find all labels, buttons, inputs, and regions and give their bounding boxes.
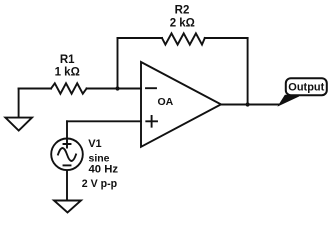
wire feedback top rail left: [118, 37, 163, 39]
ground left: [5, 118, 32, 131]
wire output rail: [221, 104, 279, 106]
svg-text:2 kΩ: 2 kΩ: [170, 17, 195, 29]
svg-text:V1: V1: [88, 138, 101, 150]
svg-text:R2: R2: [175, 5, 190, 17]
wire left ground riser: [18, 89, 20, 117]
wire V1 top riser: [66, 121, 68, 138]
node junction R1/R2: [115, 86, 119, 90]
op-amp plus input marker: [146, 116, 157, 127]
wire feedback right vertical: [247, 38, 249, 105]
ground bottom: [54, 201, 81, 213]
svg-text:40 Hz: 40 Hz: [89, 163, 119, 175]
svg-text:1 kΩ: 1 kΩ: [55, 67, 80, 79]
wire V1 bottom riser: [66, 171, 68, 200]
wire feedback left vertical: [117, 38, 119, 89]
node junction output: [246, 102, 250, 106]
wire feedback top rail right: [205, 37, 248, 39]
output flag tail: [279, 95, 299, 105]
source V1 sine wave: [58, 148, 76, 161]
resistor R2: [162, 33, 205, 44]
output flag box: [286, 78, 327, 95]
source V1 plus marker: [64, 141, 71, 148]
op-amp minus input marker: [146, 87, 156, 89]
source V1 circle: [51, 139, 83, 171]
source V1 minus marker: [64, 164, 71, 166]
wire input rail left segment: [19, 88, 51, 90]
wire plus input rail: [67, 120, 141, 122]
resistor R1: [51, 83, 87, 93]
wire input rail right segment: [87, 88, 141, 90]
svg-text:2 V p-p: 2 V p-p: [82, 178, 118, 190]
op-amp OA: [141, 62, 221, 147]
svg-text:OA: OA: [158, 96, 174, 108]
svg-text:Output: Output: [288, 81, 324, 93]
svg-text:R1: R1: [60, 54, 75, 66]
